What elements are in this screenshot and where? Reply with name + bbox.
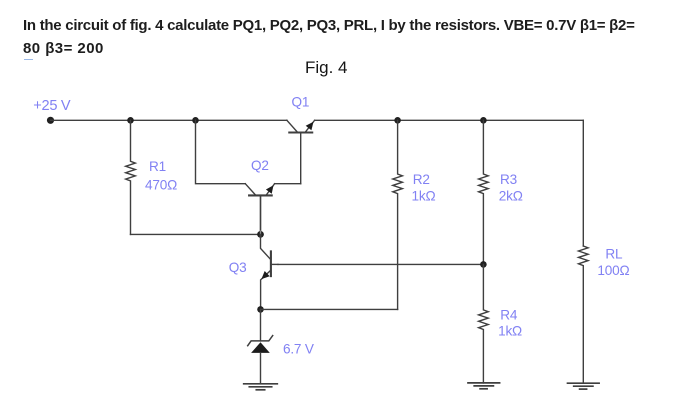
wire top rail left xyxy=(51,119,287,121)
wire Q3 base to R3/R4 junction xyxy=(278,263,483,265)
zener diode 6.7V xyxy=(248,336,273,384)
label +25V xyxy=(33,98,71,114)
svg-text:Q2: Q2 xyxy=(251,158,269,173)
junction Q2 collector tap xyxy=(192,117,199,124)
svg-text:RL: RL xyxy=(605,246,623,261)
resistor R1 xyxy=(126,120,136,234)
svg-text:100Ω: 100Ω xyxy=(597,263,629,278)
svg-text:R4: R4 xyxy=(500,307,518,322)
transistor Q2 xyxy=(245,184,274,235)
svg-text:1kΩ: 1kΩ xyxy=(498,324,522,339)
label Q3 xyxy=(229,260,247,275)
transistor Q3 xyxy=(261,234,279,309)
junction R3 top xyxy=(480,117,487,124)
wire emitter node to R2 bottom xyxy=(261,308,398,310)
transistor Q1 xyxy=(287,120,315,183)
svg-text:+25 V: +25 V xyxy=(33,98,71,114)
label R3 2kΩ xyxy=(499,172,523,203)
junction R1 top xyxy=(127,117,134,124)
wire RL drop from top rail xyxy=(582,120,584,246)
svg-text:6.7 V: 6.7 V xyxy=(283,341,314,356)
wire Q2 emitter to Q1 base xyxy=(275,183,301,185)
ground under R4 xyxy=(468,383,500,389)
resistor R3 xyxy=(479,120,489,264)
junction R2 top xyxy=(394,117,401,124)
resistor RL xyxy=(579,246,589,383)
label Q2 xyxy=(251,158,269,173)
svg-text:1kΩ: 1kΩ xyxy=(412,188,436,203)
junction Q3 emitter / R2 tap xyxy=(257,306,264,313)
node +25V terminal xyxy=(47,117,54,124)
wire Q2 collector tap drop xyxy=(196,120,246,183)
label RL 100Ω xyxy=(597,246,629,278)
problem statement line 2 xyxy=(23,40,104,57)
svg-text:470Ω: 470Ω xyxy=(145,177,177,192)
junction R3 bottom / R4 top xyxy=(480,261,487,268)
resistor R4 xyxy=(479,264,489,383)
ground under zener xyxy=(244,384,278,390)
svg-text:R2: R2 xyxy=(413,172,430,187)
wire Q3 emitter to zener xyxy=(260,309,262,341)
svg-text:2kΩ: 2kΩ xyxy=(499,188,523,203)
wire top rail right xyxy=(315,119,584,121)
svg-text:R1: R1 xyxy=(149,159,166,174)
svg-text:Q3: Q3 xyxy=(229,260,247,275)
svg-text:Q1: Q1 xyxy=(292,94,310,109)
svg-text:R3: R3 xyxy=(500,172,517,187)
wire Q2 base to node A xyxy=(260,195,262,234)
label R1 470Ω xyxy=(145,159,177,193)
wire R1 bottom to node A xyxy=(131,233,261,235)
resistor R2 xyxy=(393,120,403,309)
problem statement line 1 xyxy=(23,17,635,34)
ground under RL xyxy=(568,383,600,389)
node A junction (R1 / Q2 base / Q3 collector) xyxy=(257,231,264,238)
label R2 1kΩ xyxy=(412,172,436,203)
label R4 1kΩ xyxy=(498,307,522,338)
label Q1 xyxy=(292,94,310,109)
label 6.7V xyxy=(283,341,314,356)
spellcheck mark under 80 xyxy=(24,59,33,61)
figure caption xyxy=(305,58,348,78)
